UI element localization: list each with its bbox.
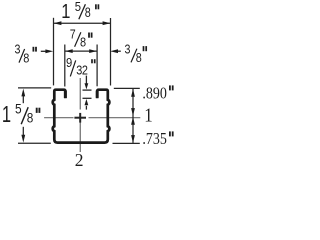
extension line left (width dim) bbox=[53, 18, 55, 86]
strut channel outline bbox=[53, 90, 110, 143]
arrowhead 7/8 right bbox=[89, 49, 97, 53]
svg-text:8: 8 bbox=[136, 51, 142, 65]
axis 2 vertical centerline upper part bbox=[79, 78, 81, 110]
label 1 5/8 top bbox=[61, 0, 98, 23]
extension line left lip (7/8) bbox=[64, 45, 66, 87]
9/32 top reference bar bbox=[83, 89, 92, 91]
svg-text:9: 9 bbox=[66, 55, 72, 70]
svg-text:8: 8 bbox=[80, 35, 86, 50]
arrowhead .735 up at axis bbox=[131, 117, 135, 125]
left lip drop reinforced bbox=[64, 91, 67, 99]
9/32 bottom reference bar bbox=[83, 97, 92, 99]
label 3/8 right bbox=[125, 43, 147, 65]
left height dim: top extension bbox=[18, 87, 51, 89]
label 7/8 bbox=[70, 28, 92, 50]
label 3/8 left bbox=[15, 43, 37, 66]
label 9/32 bbox=[66, 55, 95, 78]
svg-text:3: 3 bbox=[125, 43, 131, 57]
arrowhead .735 down bbox=[131, 135, 135, 143]
svg-text:3: 3 bbox=[15, 43, 21, 57]
svg-text:5: 5 bbox=[75, 0, 81, 14]
center cross bbox=[74, 113, 86, 123]
arrowhead top-right bbox=[103, 21, 111, 25]
arrowhead .890 down at axis bbox=[131, 108, 135, 116]
left height dim: bottom extension bbox=[18, 142, 51, 144]
label .890 bbox=[142, 84, 172, 102]
svg-text:5: 5 bbox=[15, 101, 22, 117]
svg-text:2: 2 bbox=[75, 150, 84, 170]
svg-text:8: 8 bbox=[23, 51, 29, 66]
right dim line vertical bbox=[132, 89, 134, 143]
arrowhead .890 up bbox=[131, 89, 135, 97]
3/8 right leader arrow bbox=[116, 50, 121, 52]
svg-text:8: 8 bbox=[85, 5, 91, 20]
svg-text:32: 32 bbox=[76, 63, 87, 78]
svg-text:.735: .735 bbox=[142, 130, 167, 148]
svg-text:1: 1 bbox=[61, 0, 70, 23]
left height dim line upper segment with up arrow bbox=[22, 96, 24, 103]
9/32 upper arrow (down) bbox=[85, 76, 87, 85]
svg-text:1: 1 bbox=[144, 105, 152, 127]
svg-text:8: 8 bbox=[27, 110, 34, 126]
svg-text:1: 1 bbox=[2, 102, 11, 127]
label 1 5/8 left bbox=[2, 101, 40, 128]
3/8 left leader arrow bbox=[41, 50, 46, 52]
arrowhead top-left bbox=[54, 21, 62, 25]
dimension line 7/8 bbox=[65, 50, 97, 52]
extension line right (width dim) bbox=[110, 18, 112, 86]
svg-text:.890: .890 bbox=[142, 84, 167, 102]
dimension line 1 5/8 top bbox=[54, 22, 111, 24]
svg-text:7: 7 bbox=[70, 28, 76, 42]
axis 2 vertical centerline lower part bbox=[79, 123, 81, 153]
axis 1 horizontal centerline left part bbox=[44, 117, 73, 119]
label .735 bbox=[142, 130, 172, 148]
9/32 lower arrow (up) bbox=[85, 106, 87, 110]
arrowhead 7/8 left bbox=[65, 49, 73, 53]
right dims: bottom extension bbox=[113, 142, 140, 144]
extension line right lip (7/8) bbox=[96, 45, 98, 87]
right lip drop reinforced bbox=[96, 91, 99, 98]
left height dim line lower segment with down arrow bbox=[22, 127, 24, 135]
axis 1 horizontal centerline right part bbox=[89, 117, 141, 119]
right dims: top extension bbox=[114, 87, 140, 89]
